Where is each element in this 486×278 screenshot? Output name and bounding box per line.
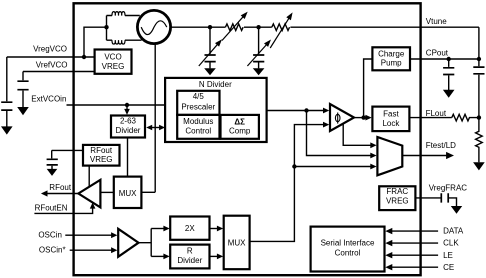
node PFD output: [361, 115, 365, 119]
wire CLK: [385, 240, 438, 246]
svg-text:RFout: RFout: [49, 183, 72, 192]
buffer RFout amp: [78, 180, 100, 208]
MUX U-mux2: [224, 216, 250, 270]
svg-text:LE: LE: [443, 251, 453, 260]
VCO VREG U-vreg1: [95, 50, 132, 74]
capacitor C4: [443, 59, 454, 90]
svg-text:Control: Control: [185, 127, 211, 136]
wire PFD to charge pump: [364, 59, 373, 118]
wire double arrow 2-63 to N divider: [146, 125, 165, 131]
wire VregFRAC: [415, 197, 440, 199]
arrow into Fast Lock: [365, 115, 371, 121]
svg-text:Charge: Charge: [378, 50, 405, 59]
wire VCO line to MUX: [141, 191, 155, 193]
svg-text:OSCin: OSCin: [38, 231, 62, 240]
RFout VREG U-vreg2: [83, 145, 120, 166]
2X doubler U-2x: [170, 217, 209, 240]
svg-text:DATA: DATA: [443, 227, 464, 236]
inductor L1: [107, 12, 140, 16]
wire N div branch to out mux: [307, 111, 377, 159]
wire RFout VREG to buffer: [88, 166, 90, 187]
2-63 Divider U-div: [111, 116, 145, 138]
wire DATA: [385, 228, 438, 234]
resistor R4: [476, 118, 483, 163]
svg-text:CPout: CPout: [426, 48, 449, 57]
svg-text:Fast: Fast: [383, 110, 399, 119]
svg-text:VREG: VREG: [102, 62, 125, 71]
wire ref to out mux: [294, 164, 376, 170]
wire 2X to MUX2: [210, 226, 224, 232]
node reference branch: [292, 164, 296, 168]
capacitor varactor CV2: [247, 27, 271, 68]
svg-text:Serial Interface: Serial Interface: [321, 239, 375, 248]
node ExtVCOin junction: [125, 103, 129, 107]
resistor var R1: [222, 12, 248, 41]
node tank tap: [104, 25, 108, 29]
node VregVCO junction: [82, 55, 86, 59]
wire to 2X: [151, 226, 170, 232]
svg-text:VREG: VREG: [90, 155, 113, 164]
capacitor C3: [47, 150, 58, 169]
node varactor 1 tap: [208, 25, 212, 29]
svg-text:Comp: Comp: [229, 127, 251, 136]
svg-text:RFoutEN: RFoutEN: [35, 203, 68, 212]
svg-text:CLK: CLK: [443, 239, 459, 248]
svg-text:Ftest/LD: Ftest/LD: [426, 141, 456, 150]
chip border: [74, 3, 421, 275]
svg-text:Vtune: Vtune: [426, 17, 447, 26]
wire Ftest/LD output arrow: [402, 152, 454, 159]
wire CPout: [410, 58, 479, 60]
wire FLout: [409, 117, 451, 119]
svg-text:Divider: Divider: [177, 256, 202, 265]
svg-text:VregFRAC: VregFRAC: [429, 183, 468, 192]
wire RFoutEN enable arrow: [34, 203, 95, 214]
wire 2-63 divider to MUX: [127, 138, 129, 177]
svg-text:VrefVCO: VrefVCO: [36, 60, 68, 69]
Delta Sigma Comp U-ds: [221, 115, 259, 139]
4/5 Prescaler U-presc: [177, 91, 219, 115]
wire VregVCO: [7, 56, 95, 58]
wire LE: [385, 252, 438, 258]
wire tank loop left: [106, 16, 108, 41]
ground C1: [1, 126, 13, 134]
node N div branch: [304, 108, 308, 112]
Serial Interface Control U-sic: [311, 227, 385, 272]
ground varactor 2: [253, 68, 265, 75]
wire Vtune down: [478, 27, 480, 66]
ground C4: [443, 90, 455, 98]
capacitor C1: [1, 57, 12, 127]
svg-text:MUX: MUX: [228, 238, 246, 247]
node CPout cap: [447, 57, 451, 61]
ground C2: [17, 107, 29, 115]
Fast Lock U-fl: [372, 107, 409, 132]
N Divider U-ndiv: [165, 78, 267, 142]
wire arrow into 2-63 divider: [124, 105, 130, 115]
capacitor C2: [17, 72, 28, 108]
wire to R Divider: [151, 254, 170, 260]
svg-text:Lock: Lock: [382, 119, 400, 128]
wire VCO down to MUX: [154, 44, 156, 193]
wire CE: [385, 264, 438, 270]
ground C3: [47, 169, 58, 176]
svg-text:4/5: 4/5: [193, 92, 205, 101]
arrow PFD input top: [323, 108, 329, 114]
svg-text:N Divider: N Divider: [199, 80, 232, 89]
wire OSCin: [65, 232, 117, 238]
capacitor C5: [473, 67, 484, 118]
FRAC VREG U-vreg3: [379, 186, 415, 210]
svg-text:Modulus: Modulus: [183, 117, 213, 126]
Charge Pump U-cp: [372, 47, 410, 70]
wire VCO to Vtune/loop filter: [171, 26, 479, 28]
node CPout Vtune: [477, 57, 481, 61]
svg-text:Pump: Pump: [381, 59, 402, 68]
svg-text:CE: CE: [443, 263, 454, 272]
svg-text:2X: 2X: [185, 224, 195, 233]
MUX U-mux1: [114, 177, 142, 208]
wire OSCin*: [70, 247, 118, 253]
svg-text:OSCin*: OSCin*: [39, 246, 66, 255]
svg-text:VregVCO: VregVCO: [33, 45, 67, 54]
svg-text:R: R: [187, 247, 193, 256]
resistor var R2: [270, 12, 292, 48]
wire MUX to buffer: [100, 191, 113, 193]
ground varactor 1: [204, 68, 216, 75]
svg-text:Divider: Divider: [116, 126, 141, 135]
wire reference line: [250, 125, 324, 242]
wire R Divider to MUX2: [210, 254, 224, 260]
wire RFout VREG pin: [52, 149, 83, 151]
svg-text:RFout: RFout: [90, 146, 113, 155]
node varactor 2 tap: [256, 25, 260, 29]
svg-text:VCO: VCO: [104, 53, 121, 62]
resistor R3: [452, 114, 479, 121]
svg-text:Control: Control: [335, 249, 361, 258]
svg-text:VREG: VREG: [386, 196, 409, 205]
wire ExtVCOin: [67, 104, 166, 106]
buffer OSC input: [118, 229, 138, 257]
wire tank to VregVCO: [84, 27, 107, 57]
svg-text:ExtVCOin: ExtVCOin: [31, 95, 66, 104]
wire PFD output: [354, 117, 366, 119]
R Divider U-rdiv: [170, 245, 209, 269]
wire OSC buffer out split: [139, 229, 152, 257]
Modulus Control U-mod: [177, 115, 219, 139]
svg-text:FLout: FLout: [426, 109, 447, 118]
svg-text:ΔΣ: ΔΣ: [234, 118, 245, 127]
wire RFout with arrow: [41, 190, 79, 196]
oscillator VCO: [137, 10, 170, 43]
svg-text:2-63: 2-63: [120, 117, 137, 126]
svg-text:FRAC: FRAC: [386, 187, 408, 196]
ground C6: [451, 206, 462, 214]
wire VrefVCO: [23, 71, 95, 73]
capacitor C6: [441, 193, 456, 206]
wire PFD tap to out mux: [343, 124, 376, 149]
PFD phase detector U-pfd: [330, 104, 354, 131]
node FLout junction: [477, 115, 481, 119]
wire N divider to PFD: [267, 110, 324, 112]
ground R4: [473, 162, 485, 170]
arrow PFD input bottom: [323, 122, 329, 128]
capacitor varactor CV1: [199, 27, 222, 68]
svg-text:Prescaler: Prescaler: [181, 103, 215, 112]
svg-text:MUX: MUX: [119, 189, 137, 198]
MUX output trapezoid U-mux3: [377, 137, 402, 175]
inductor L2: [107, 40, 142, 44]
